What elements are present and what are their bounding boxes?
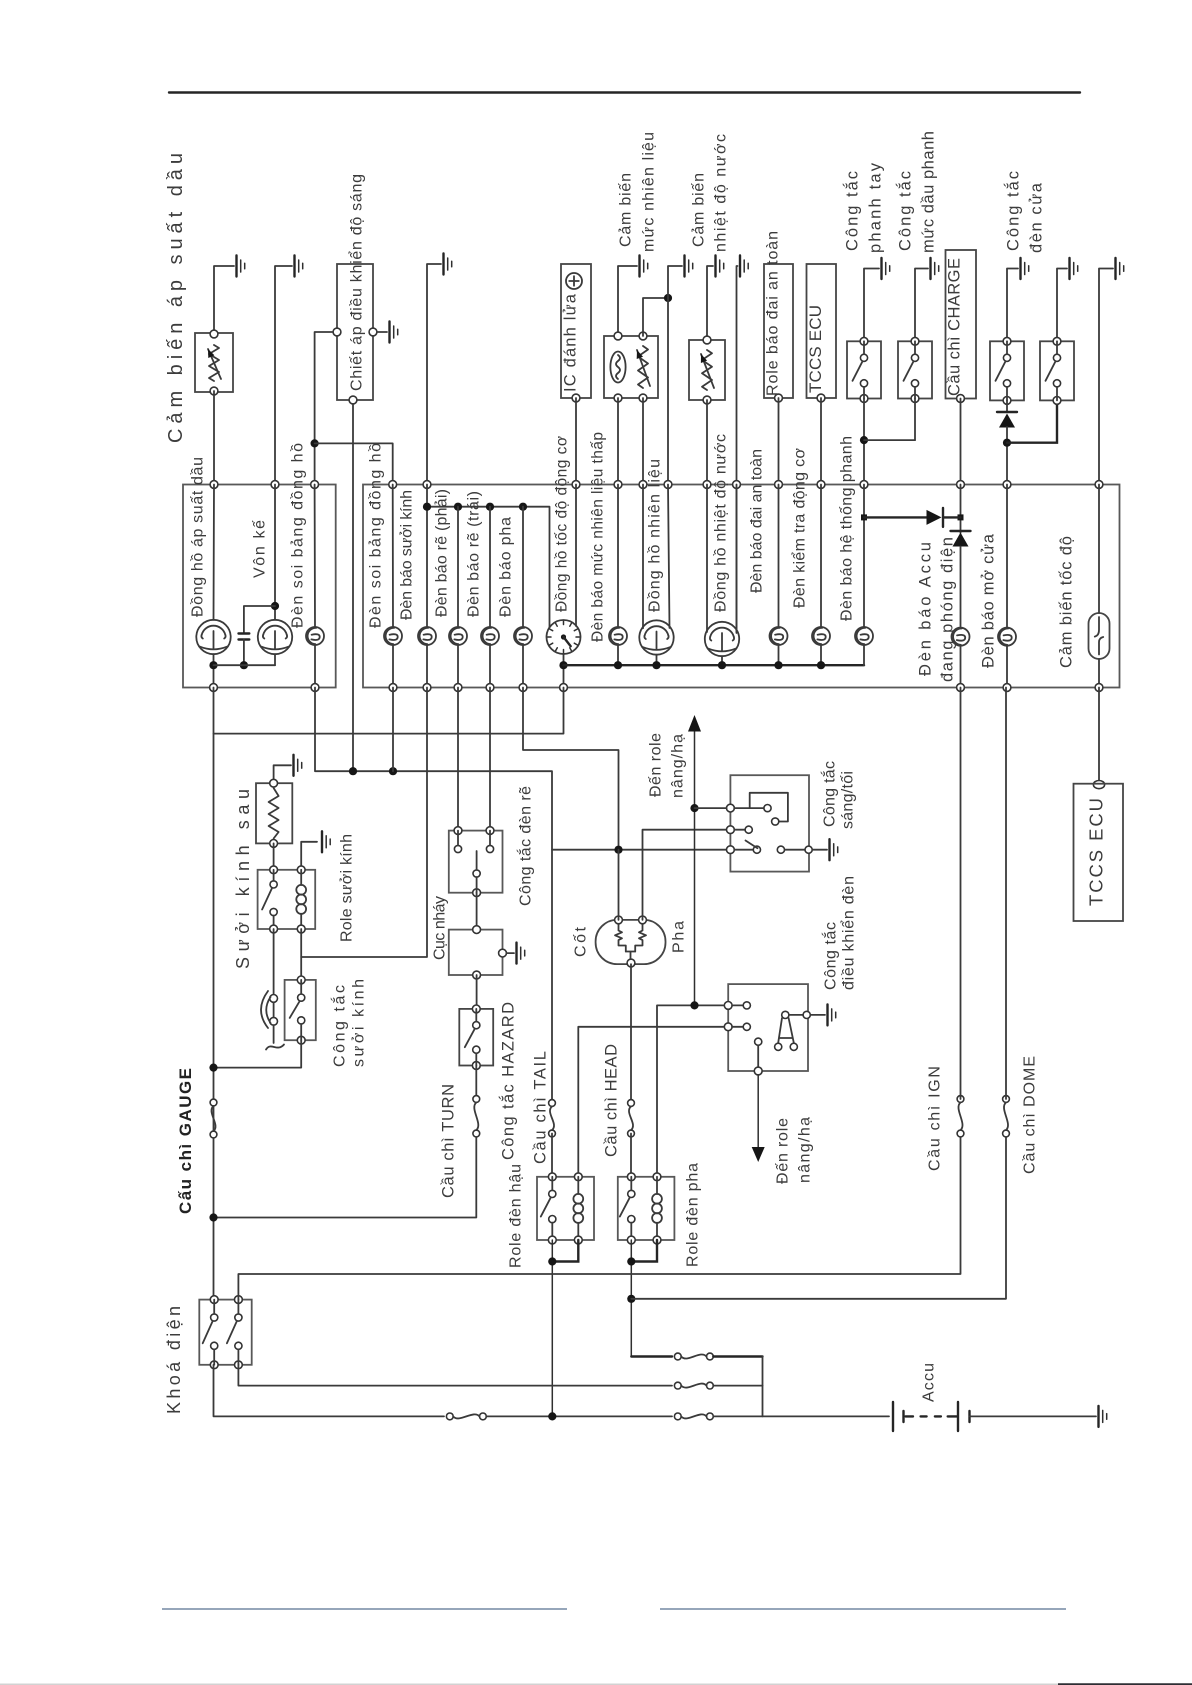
svg-text:đang phóng điện: đang phóng điện [939, 537, 957, 682]
headlamp relay Role den pha [618, 1177, 675, 1240]
panel lamp 2 Den soi bang dong ho [384, 627, 402, 645]
svg-text:Công tắc đèn rẽ: Công tắc đèn rẽ [515, 786, 534, 906]
wire temp sensor to ground [707, 266, 713, 340]
svg-text:mức nhiên liệu: mức nhiên liệu [640, 132, 657, 252]
ground defogger indicator [442, 254, 444, 275]
wire door switch 1 to ground [1007, 269, 1018, 342]
svg-text:Đèn soi bảng đồng hồ: Đèn soi bảng đồng hồ [289, 443, 306, 628]
bottom scan edge [0, 1683, 1058, 1685]
svg-text:Cầu chì DOME: Cầu chì DOME [1021, 1056, 1038, 1174]
wire turn indicators down [457, 688, 459, 831]
oil pressure gauge Dong ho ap suat dau [196, 620, 230, 654]
charge fuse box Cau chi CHARGE [946, 250, 977, 399]
wire flasher to hazard switch [476, 975, 478, 1009]
wire handbrake switch down [863, 399, 865, 485]
footer rule right [660, 1608, 1066, 1610]
svg-text:mức dầu phanh: mức dầu phanh [920, 131, 938, 253]
hazard switch Cong tac HAZARD [459, 1009, 493, 1066]
wire fuel lamp feed [617, 398, 619, 485]
diode door lamp [1006, 400, 1008, 412]
wire gauge bottoms [214, 664, 276, 666]
wire voltmeter to ground [275, 266, 292, 485]
fuse main 2 [674, 1413, 681, 1420]
door open lamp Den bao mo cua [998, 628, 1016, 646]
svg-text:Cảm biến: Cảm biến [617, 173, 634, 247]
wire temp gauge right to ground [737, 266, 738, 632]
svg-text:Cầu chì TURN: Cầu chì TURN [440, 1084, 458, 1198]
instrument cluster box 2 (lamps and gauges) [363, 485, 1120, 688]
headlamp bulb Cot Pha [596, 920, 666, 964]
ground fuel sensor [638, 256, 640, 277]
ground speed sensor wire [1114, 258, 1116, 279]
fuse Cau chi TURN [475, 1066, 477, 1100]
battery discharge lamp Den bao Accu dang phong dien [952, 628, 970, 646]
wire DOME fuse to cluster [1005, 688, 1007, 1100]
svg-text:Đồng hồ nhiệt độ nước: Đồng hồ nhiệt độ nước [712, 434, 729, 612]
wire dimmer left terminal to panel lamps [315, 332, 333, 485]
defogger relay Role suoi kinh [258, 870, 316, 929]
wire dimmer switch to ground [813, 849, 828, 851]
svg-text:Cấu chì GAUGE: Cấu chì GAUGE [176, 1068, 195, 1214]
wire speed sensor to TCCS ECU [1098, 688, 1100, 781]
brake system warning lamp Den bao he thong phanh [855, 627, 873, 645]
fuse Cau chi DOME [1003, 1096, 1010, 1103]
ground flasher [515, 943, 517, 964]
svg-text:Cầu chì HEAD: Cầu chì HEAD [603, 1044, 621, 1157]
svg-text:nâng/hạ: nâng/hạ [796, 1117, 813, 1183]
illumination feed line in cluster [427, 507, 550, 628]
arrow to lift relay (down) [757, 1075, 759, 1148]
svg-text:điều khiển đèn: điều khiển đèn [839, 876, 857, 990]
wire DOME bus [631, 1135, 1006, 1299]
wire panel lamp 2 down [392, 688, 394, 772]
wire charge lamp branch [960, 485, 962, 534]
wire handbrake switch to ground [864, 269, 879, 342]
wire high beam indicator to headlamp circuit [523, 688, 619, 847]
diode brake to charge line [864, 516, 927, 518]
wire ignition feed to tachometer [214, 688, 564, 734]
wire to tachometer right [575, 485, 577, 627]
fuse Cau chi TAIL [549, 1100, 556, 1107]
wire head relay common [631, 1240, 657, 1262]
wire illumination line below cluster [315, 688, 552, 1100]
svg-text:Công tắc HAZARD: Công tắc HAZARD [499, 1002, 518, 1160]
panel lamp 1 Den soi bang dong ho [306, 627, 324, 645]
wire tail relay common [552, 1240, 578, 1262]
ground defogger relay coil [321, 831, 323, 852]
fuse main 1 [446, 1413, 453, 1420]
ignition IC box IC danh lua [561, 264, 591, 398]
ground light control switch [826, 1004, 828, 1025]
TCCS ECU box top [807, 264, 837, 398]
wire relay to defogger switch [300, 929, 302, 980]
wire crescent lamp tail [273, 1025, 275, 1043]
wire door lamp feed [1006, 485, 1008, 628]
svg-text:nhiệt độ nước: nhiệt độ nước [712, 134, 729, 252]
wire heater to relay [273, 843, 275, 869]
svg-text:Đến role: Đến role [774, 1118, 791, 1184]
wire temp sensor to temp gauge left [706, 400, 708, 485]
wire light switch to tail relay coil [578, 1027, 724, 1177]
wire flasher to ground [506, 952, 514, 954]
light control switch Cong tac dieu khien den [728, 984, 808, 1071]
dimmer switch Cong tac sang/toi [730, 775, 809, 871]
wire sensor to cluster [213, 391, 215, 485]
svg-text:sưởi kính: sưởi kính [350, 979, 367, 1067]
svg-text:Công tắc: Công tắc [820, 922, 839, 990]
TCCS ECU box bottom [1074, 784, 1124, 921]
instrument cluster box 1 (gauges) [183, 485, 336, 688]
fuel level sensor Cam bien muc nhien lieu [604, 336, 658, 398]
wire to battery [486, 1415, 672, 1417]
svg-text:Đồng hồ nhiên liệu: Đồng hồ nhiên liệu [646, 459, 663, 612]
ground voltmeter wire [293, 256, 295, 277]
ground brake fluid switch [929, 258, 931, 279]
svg-text:Đèn báo rẽ (trái): Đèn báo rẽ (trái) [465, 491, 482, 617]
wire IGN fuse to cluster [960, 688, 962, 1100]
wire dimmer wiper down to illumination line [352, 404, 354, 771]
wire oil pressure sensor to ground [214, 266, 234, 334]
svg-text:Cảm biến áp suất dầu: Cảm biến áp suất dầu [165, 153, 187, 443]
svg-text:Role sưởi kính: Role sưởi kính [338, 834, 355, 942]
ignition switch Khoa dien [199, 1300, 251, 1365]
door switch 2 Cong tac den cua [1040, 341, 1074, 400]
wire light switch feed node [657, 1005, 724, 1176]
wire fuse junction [762, 1357, 764, 1417]
battery Accu [892, 1402, 894, 1431]
svg-text:Vôn kế: Vôn kế [251, 520, 268, 578]
defogger switch crescent lamp [270, 995, 278, 1003]
svg-text:Chiết áp điều khiển độ sáng: Chiết áp điều khiển độ sáng [347, 174, 365, 391]
wire relay to cluster [778, 398, 780, 485]
svg-text:Đèn báo rẽ (phải): Đèn báo rẽ (phải) [433, 489, 450, 617]
door switch 1 Cong tac den cua [990, 341, 1024, 400]
svg-text:Đèn báo sưởi kính: Đèn báo sưởi kính [398, 490, 415, 620]
svg-text:Đồng hồ áp suất dầu: Đồng hồ áp suất dầu [189, 457, 206, 617]
wire bulb common to head fuse [630, 964, 632, 1099]
wire lift relay feed [694, 732, 696, 1006]
wire defogger indicator to ground [427, 264, 441, 485]
svg-text:Đèn báo đai an toàn: Đèn báo đai an toàn [748, 449, 765, 593]
wire fuel sensor left to ground [618, 266, 637, 336]
handbrake switch Cong tac phanh tay [847, 341, 881, 398]
svg-text:đèn cửa: đèn cửa [1028, 182, 1046, 253]
ground handbrake switch [880, 258, 882, 279]
svg-text:Đến role: Đến role [647, 733, 664, 797]
fuel gauge Dong ho nhien lieu [639, 620, 673, 654]
wire IC to cluster [575, 398, 577, 485]
svg-text:Đèn báo mở cửa: Đèn báo mở cửa [980, 533, 998, 668]
voltmeter Von ke [258, 620, 292, 654]
wire tail fuse to relay [551, 1134, 553, 1177]
svg-text:Đèn báo hệ thống phanh: Đèn báo hệ thống phanh [838, 436, 855, 621]
fuse row 2 [674, 1382, 681, 1389]
ground door switch 1 [1019, 258, 1021, 279]
svg-text:Công tắc: Công tắc [819, 761, 838, 827]
wire relay to indicator lamp [273, 929, 275, 995]
wire head fuse to relay [630, 1134, 632, 1177]
wire brake fluid switch to ground [915, 269, 928, 342]
svg-text:TCCS ECU: TCCS ECU [806, 305, 825, 393]
wire gauge fuse to turn fuse [214, 1135, 477, 1218]
svg-text:Cốt: Cốt [572, 926, 589, 957]
oil pressure sensor Cam bien ap suat dau (variable resistor) [195, 333, 233, 392]
svg-text:Role báo đai an toàn: Role báo đai an toàn [764, 231, 781, 396]
ground heater [292, 755, 294, 776]
flasher Cuc nhay [449, 930, 503, 975]
water temp gauge Dong ho nhiet do nuoc [705, 622, 739, 656]
dimmer potentiometer Chiet ap dieu khien do sang [337, 264, 373, 400]
wire defogger indicator down [301, 688, 427, 958]
wire door switch 2 link [1007, 400, 1057, 442]
wire link brake switches [864, 439, 915, 441]
fuse Cau chi HEAD [628, 1100, 635, 1107]
svg-text:Đèn báo mức nhiên liệu thấp: Đèn báo mức nhiên liệu thấp [589, 432, 606, 642]
svg-text:Pha: Pha [670, 921, 687, 953]
svg-text:Đèn báo Accu: Đèn báo Accu [917, 542, 935, 676]
footer rule left [162, 1608, 567, 1610]
speed sensor Cam bien toc do [1089, 613, 1110, 659]
svg-text:Cầu chì IGN: Cầu chì IGN [926, 1066, 943, 1171]
wire IGN bus [238, 1135, 960, 1300]
svg-text:Đèn báo pha: Đèn báo pha [497, 517, 514, 617]
wire node to ground [668, 266, 682, 298]
wire node down to fuel gauge [667, 298, 669, 485]
wire door switch 2 to ground [1057, 269, 1067, 342]
fuse row 1 [674, 1353, 681, 1360]
wire brake fluid switch to node [914, 399, 916, 441]
svg-text:Đèn soi bảng đồng hồ: Đèn soi bảng đồng hồ [367, 443, 384, 628]
wire fuel sensor to fuel gauge left [642, 398, 644, 485]
wire fuel sensor right to node [643, 298, 668, 336]
wire dimmer right terminal to ground [377, 331, 387, 333]
svg-text:nâng/hạ: nâng/hạ [669, 734, 686, 798]
wire main gauge feed [213, 688, 215, 1300]
fuse Cau chi IGN [957, 1096, 964, 1103]
wire heater to ground [274, 765, 291, 783]
tachometer Dong ho toc do dong co [547, 620, 581, 654]
turn signal switch Cong tac den re [449, 831, 503, 893]
wire TCCS ECU to cluster [820, 398, 822, 485]
wire defogger switch to gauge feed [214, 1040, 302, 1067]
svg-text:Cảm biến: Cảm biến [690, 173, 707, 247]
wire charge fuse down [960, 399, 962, 485]
low fuel warning lamp Den bao muc nhien lieu thap [609, 627, 627, 645]
wire battery to ground [970, 1415, 1097, 1417]
wire battery main line [214, 1365, 445, 1417]
svg-text:TCCS ECU: TCCS ECU [1085, 798, 1106, 906]
svg-text:Cục nháy: Cục nháy [431, 896, 448, 960]
svg-text:IC đánh lửa: IC đánh lửa [562, 293, 580, 392]
wire low beam junction to dimmer switch [552, 849, 727, 851]
cluster lamp common line [564, 664, 865, 666]
high beam indicator Den bao pha [514, 627, 532, 645]
ground fuel node [683, 256, 685, 277]
defogger indicator lamp Den bao suoi kinh [418, 627, 436, 645]
fuse Cau chi GAUGE [210, 1099, 217, 1106]
wire ignition to accessory fuses [238, 1365, 672, 1386]
svg-text:Cảm biến tốc độ: Cảm biến tốc độ [1058, 536, 1076, 668]
wire brake warning to lamp [863, 485, 865, 628]
wire high beam to dimmer switch [643, 830, 727, 920]
ground dimmer switch [828, 839, 830, 860]
tail lamp relay Role den hau [537, 1177, 594, 1240]
ground door switch 2 [1068, 258, 1070, 279]
ground temp sensor [714, 256, 716, 277]
svg-text:Role đèn pha: Role đèn pha [684, 1163, 701, 1267]
wire low beam to bulb [618, 850, 620, 920]
wire headlamp power line [631, 1355, 672, 1357]
rear window heater Suoi kinh sau [256, 783, 292, 843]
ground battery [1097, 1406, 1099, 1427]
defogger switch Cong tac suoi kinh [285, 980, 316, 1040]
capacitor across voltmeter [244, 606, 275, 634]
seat belt warning lamp Den bao dai an toan [770, 627, 788, 645]
check engine lamp Den kiem tra dong co [812, 627, 830, 645]
svg-text:Đèn kiểm tra động cơ: Đèn kiểm tra động cơ [790, 448, 808, 609]
svg-text:Cầu chì CHARGE: Cầu chì CHARGE [946, 258, 964, 396]
svg-text:Accu: Accu [920, 1363, 937, 1402]
wire defogger relay coil to ground [301, 842, 317, 870]
ground temp gauge wire [739, 256, 741, 277]
seat belt warning relay box Role bao dai an toan [764, 264, 793, 398]
ground oil pressure sensor [235, 256, 237, 277]
arrow to lift relay (up) [688, 715, 701, 732]
svg-text:sáng/tối: sáng/tối [839, 771, 856, 829]
wire speed sensor to ground [1099, 269, 1113, 485]
diode charge lamp (vertical) [951, 530, 971, 532]
svg-text:Đồng hồ tốc độ động cơ: Đồng hồ tốc độ động cơ [553, 436, 570, 612]
svg-text:phanh tay: phanh tay [867, 162, 885, 253]
page header rule [169, 91, 1080, 93]
turn right indicator Den bao re (phai) [449, 627, 467, 645]
wire light switch to ground [811, 1014, 825, 1016]
wire switch to flasher [476, 893, 478, 930]
turn left indicator Den bao re (trai) [481, 627, 499, 645]
svg-text:Role đèn hậu: Role đèn hậu [507, 1164, 524, 1268]
brake fluid level switch Cong tac muc dau phanh [898, 341, 932, 398]
ground dimmer [388, 322, 390, 343]
water temp sensor Cam bien nhiet do nuoc [689, 340, 725, 400]
wire node to panel lamp 2 [315, 443, 393, 484]
